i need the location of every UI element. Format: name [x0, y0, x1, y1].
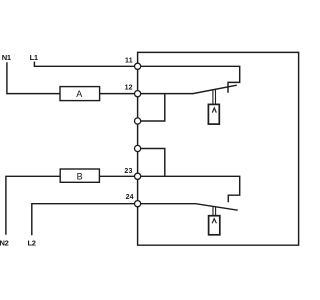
svg-text:23: 23: [124, 168, 132, 175]
svg-text:N2: N2: [0, 239, 9, 248]
svg-text:N1: N1: [2, 53, 11, 62]
svg-text:L2: L2: [28, 239, 36, 248]
svg-text:L1: L1: [30, 53, 38, 62]
svg-text:B: B: [77, 172, 83, 182]
svg-text:24: 24: [126, 194, 134, 201]
svg-text:A: A: [76, 89, 82, 99]
svg-text:12: 12: [125, 85, 133, 92]
svg-text:11: 11: [125, 57, 133, 64]
